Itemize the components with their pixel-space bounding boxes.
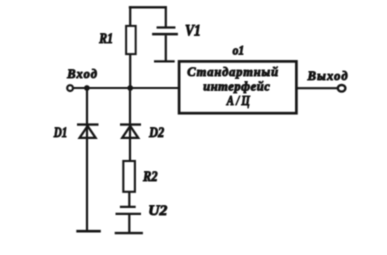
svg-text:Стандартный: Стандартный (187, 65, 279, 79)
wire (74, 87, 179, 89)
ground (115, 232, 143, 234)
svg-text:Вход: Вход (66, 67, 98, 81)
resistor R1 (126, 6, 136, 88)
label Выход (307, 69, 349, 83)
battery V1 (152, 6, 178, 61)
svg-text:V1: V1 (185, 23, 201, 40)
label А/Ц (226, 94, 251, 109)
battery U2 (116, 207, 142, 232)
label D2 (148, 125, 164, 141)
wire (296, 87, 337, 89)
svg-text:D1: D1 (53, 125, 67, 141)
label V1 (185, 23, 201, 40)
wire (129, 88, 131, 124)
wire (129, 6, 167, 8)
diode D1 (77, 124, 99, 230)
wire (86, 88, 88, 124)
label U2 (148, 202, 167, 219)
junction (127, 85, 133, 91)
svg-text:Выход: Выход (307, 69, 349, 83)
block U1 standard interface A/D (179, 61, 296, 113)
resistor R2 (123, 161, 135, 206)
svg-text:U2: U2 (148, 202, 167, 219)
svg-text:интерфейс: интерфейс (203, 80, 270, 94)
svg-text:R1: R1 (98, 31, 113, 47)
svg-text:D2: D2 (148, 125, 164, 141)
node Выход (338, 85, 346, 92)
label R1 (98, 31, 113, 47)
junction (84, 85, 90, 91)
svg-text:А / Ц: А / Ц (226, 94, 251, 109)
ground (76, 230, 101, 233)
label интерфейс (203, 80, 270, 94)
label R2 (142, 169, 157, 185)
svg-text:о1: о1 (233, 43, 245, 58)
label D1 (53, 125, 67, 141)
node Вход (67, 85, 73, 91)
label о1 (233, 43, 245, 58)
label Стандартный (187, 65, 279, 79)
svg-text:R2: R2 (142, 169, 157, 185)
diode D2 (120, 124, 141, 161)
label Вход (66, 67, 98, 81)
